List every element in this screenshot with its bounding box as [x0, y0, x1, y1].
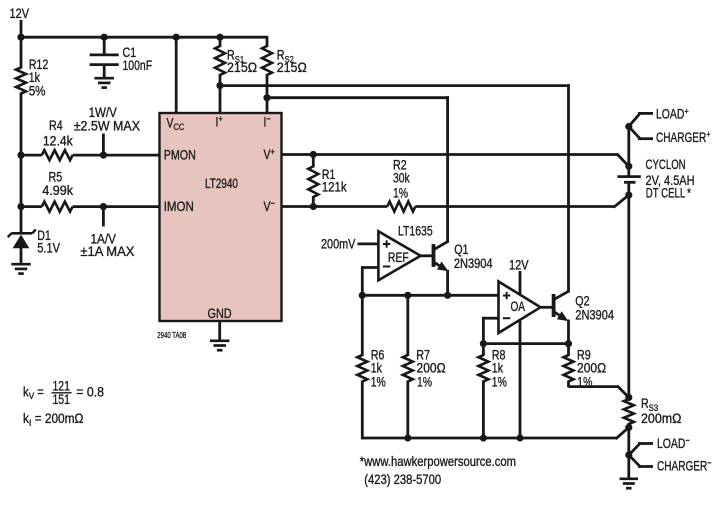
transistor Q2 2N3904: [552, 294, 556, 317]
wire REF - input: [362, 266, 378, 269]
wire R9 to RS3 top: [569, 385, 619, 388]
wire OA V+ pin: [519, 271, 522, 294]
junction dot IMON tap: [17, 203, 24, 210]
svg-text:CHARGER−: CHARGER−: [657, 457, 711, 474]
junction dot RS3 top: [625, 394, 632, 401]
svg-text:5.1V: 5.1V: [37, 241, 61, 256]
wire top supply rail: [20, 36, 267, 39]
diode D1 zener: [11, 232, 32, 235]
junction dot load- terminal: [625, 451, 632, 458]
wire IMON stub: [102, 207, 105, 227]
wire I- sense to Q1 collector: [267, 96, 449, 99]
wire left column upper: [20, 37, 23, 68]
wire CHARGER- stub: [628, 454, 640, 467]
wire R8 to Q2 emitter: [483, 342, 568, 345]
ground D1: [11, 263, 31, 266]
ground IC GND: [210, 339, 230, 342]
wire mid rail: [362, 294, 498, 297]
junction dot IMON stub: [100, 203, 107, 210]
svg-text:CYCLON: CYCLON: [646, 158, 686, 173]
resistor RS3: [624, 399, 634, 424]
junction dot batt V-: [625, 192, 632, 199]
junction dot OA V-/bottom rail: [516, 434, 523, 441]
wire bottom rail: [362, 437, 616, 440]
wire V+ row: [282, 153, 618, 156]
svg-text:CHARGER+: CHARGER+: [656, 129, 710, 146]
wire battery top terminal: [627, 127, 630, 176]
svg-text:30k: 30k: [393, 170, 410, 186]
svg-text:LOAD−: LOAD−: [657, 435, 690, 451]
svg-text:2N3904: 2N3904: [454, 256, 493, 271]
svg-text:Q2: Q2: [575, 294, 590, 309]
op-amp U2 LT1635 REF: [378, 231, 420, 280]
ground C1: [94, 77, 114, 80]
junction dot PMON tap: [17, 152, 24, 159]
svg-text:IMON: IMON: [164, 199, 194, 214]
junction dot RS3 bottom: [625, 424, 632, 431]
svg-text:12V: 12V: [10, 6, 30, 21]
wire IMON row: [21, 205, 42, 208]
transistor Q1 2N3904: [432, 244, 436, 267]
svg-text:1%: 1%: [492, 374, 507, 390]
junction dot RS1/I+ sense: [216, 82, 223, 89]
wire battery bottom run: [627, 183, 630, 398]
svg-text:4.99k: 4.99k: [42, 183, 73, 198]
wire PMON stub: [102, 134, 105, 156]
junction dot R7/bottom rail: [404, 434, 411, 441]
wire OA - input: [483, 317, 498, 320]
svg-text:200mV: 200mV: [321, 236, 356, 251]
svg-text:2N3904: 2N3904: [575, 308, 614, 323]
svg-text:1%: 1%: [371, 374, 386, 390]
resistor R1: [312, 155, 315, 168]
capacitor C1: [103, 37, 106, 54]
junction dot rail/R7: [404, 292, 411, 299]
battery B1 CYCLON cell: [617, 175, 640, 178]
svg-text:5%: 5%: [29, 84, 46, 99]
svg-text:GND: GND: [208, 306, 232, 321]
svg-text:OA: OA: [511, 298, 526, 314]
resistor R9: [567, 344, 570, 356]
svg-text:DT CELL *: DT CELL *: [646, 186, 691, 201]
svg-text:= 0.8: = 0.8: [76, 384, 104, 400]
svg-text:121k: 121k: [322, 180, 348, 195]
svg-text:LT2940: LT2940: [205, 176, 238, 191]
svg-text:100nF: 100nF: [123, 58, 153, 74]
svg-text:215Ω: 215Ω: [227, 59, 257, 75]
junction dot Q2e/R9: [565, 340, 572, 347]
junction dot 12V/rail: [17, 34, 24, 41]
wire Q2 emitter: [567, 320, 570, 344]
junction dot rail/RS1: [216, 34, 223, 41]
svg-text:151: 151: [52, 392, 70, 408]
junction dot R8/bottom rail: [480, 434, 487, 441]
svg-text:12.4k: 12.4k: [43, 133, 73, 149]
junction dot R1 bottom: [310, 203, 317, 210]
junction dot rail/Q1e: [444, 292, 451, 299]
junction dot load+ terminal: [625, 123, 632, 130]
svg-text:1%: 1%: [393, 185, 408, 201]
junction dot batt V+: [625, 163, 632, 170]
svg-text:kV =: kV =: [23, 385, 44, 402]
svg-text:215Ω: 215Ω: [277, 59, 307, 75]
wire VCC pin: [175, 37, 178, 114]
resistor R4: [42, 150, 73, 160]
wire battery ground stub: [627, 455, 630, 478]
svg-text:kI = 200mΩ: kI = 200mΩ: [23, 412, 83, 428]
svg-text:2940 TA08: 2940 TA08: [157, 330, 186, 340]
junction dot PMON stub: [100, 152, 107, 159]
wire Q1 emitter: [446, 270, 449, 296]
wire PMON row: [21, 154, 42, 157]
resistor R12: [16, 68, 26, 94]
ground battery: [620, 477, 639, 480]
svg-text:1%: 1%: [417, 374, 432, 390]
junction dot R8 top: [480, 340, 487, 347]
wire CHARGER+ stub: [628, 126, 640, 139]
wire OA output: [539, 306, 552, 309]
svg-text:LOAD+: LOAD+: [656, 105, 689, 121]
wire GND pin: [218, 321, 221, 341]
junction dot rail/C1: [101, 34, 108, 41]
junction dot rail/R6: [359, 292, 366, 299]
wire REF + input: [358, 242, 379, 245]
svg-text:(423) 238-5700: (423) 238-5700: [364, 472, 441, 487]
junction dot rail/VCC: [173, 34, 180, 41]
resistor R5: [42, 202, 73, 212]
svg-text:*www.hawkerpowersource.com: *www.hawkerpowersource.com: [360, 454, 516, 469]
wire LOAD- stub: [628, 444, 640, 457]
svg-text:12V: 12V: [509, 257, 529, 272]
wire 12V stub: [20, 20, 23, 39]
junction dot RS2/I- sense: [263, 94, 270, 101]
wire I+ sense to Q2 collector: [220, 84, 570, 87]
resistor R7: [406, 295, 409, 356]
resistor R2: [387, 202, 415, 212]
svg-text:PMON: PMON: [164, 147, 196, 162]
wire REF output: [419, 254, 432, 257]
resistor RS2: [266, 36, 269, 47]
wire LOAD+ stub: [628, 113, 640, 127]
op-amp U3 OA: [499, 282, 541, 334]
junction dot R1 top: [310, 151, 317, 158]
svg-text:200mΩ: 200mΩ: [641, 410, 682, 426]
op IC U1 LT2940 body: [160, 113, 282, 321]
resistor R6: [361, 295, 364, 356]
wire V- row: [282, 205, 388, 208]
svg-text:REF: REF: [388, 250, 409, 266]
resistor RS1: [219, 37, 222, 47]
svg-text:Q1: Q1: [454, 242, 469, 257]
svg-text:±1A MAX: ±1A MAX: [80, 244, 134, 259]
resistor R8: [482, 344, 485, 356]
svg-text:±2.5W MAX: ±2.5W MAX: [74, 118, 141, 134]
svg-text:R4: R4: [49, 118, 63, 133]
wire left column mid: [20, 93, 23, 234]
wire OA V- pin: [519, 321, 522, 439]
svg-text:LT1635: LT1635: [398, 223, 433, 239]
